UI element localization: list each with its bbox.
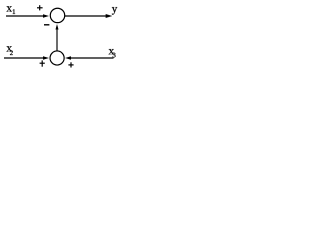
node x2 label xyxy=(7,46,12,51)
arrowhead up into U1 xyxy=(56,24,59,30)
minus sign at feedback input xyxy=(44,24,49,26)
arrowhead to y xyxy=(106,14,112,18)
node x3 label xyxy=(109,49,114,54)
plus sign at x1 input xyxy=(37,5,43,10)
label x2 subscript 2 xyxy=(10,50,13,55)
wire x3 to U2 xyxy=(71,57,114,59)
wire x2 to summing junction U2 xyxy=(4,57,44,59)
arrowhead into U1 xyxy=(43,14,49,18)
background xyxy=(0,0,133,76)
label x1 subscript 1 xyxy=(13,9,15,14)
arrowhead into U2 xyxy=(43,56,49,60)
label x3 subscript 3 xyxy=(113,53,116,58)
wire U1 output to y xyxy=(65,15,107,17)
summing junction U1 (top circle) xyxy=(50,8,64,22)
plus sign at x2 input xyxy=(40,60,45,66)
arrowhead into U2 from x3 xyxy=(65,56,71,60)
wire x1 to summing junction U1 xyxy=(6,15,44,17)
plus sign at x3 input xyxy=(68,62,73,67)
node x1 label xyxy=(7,6,12,11)
node y label xyxy=(112,7,117,14)
wire U2 to U1 (vertical) xyxy=(56,29,58,51)
summing junction U2 (bottom circle) xyxy=(50,51,64,65)
